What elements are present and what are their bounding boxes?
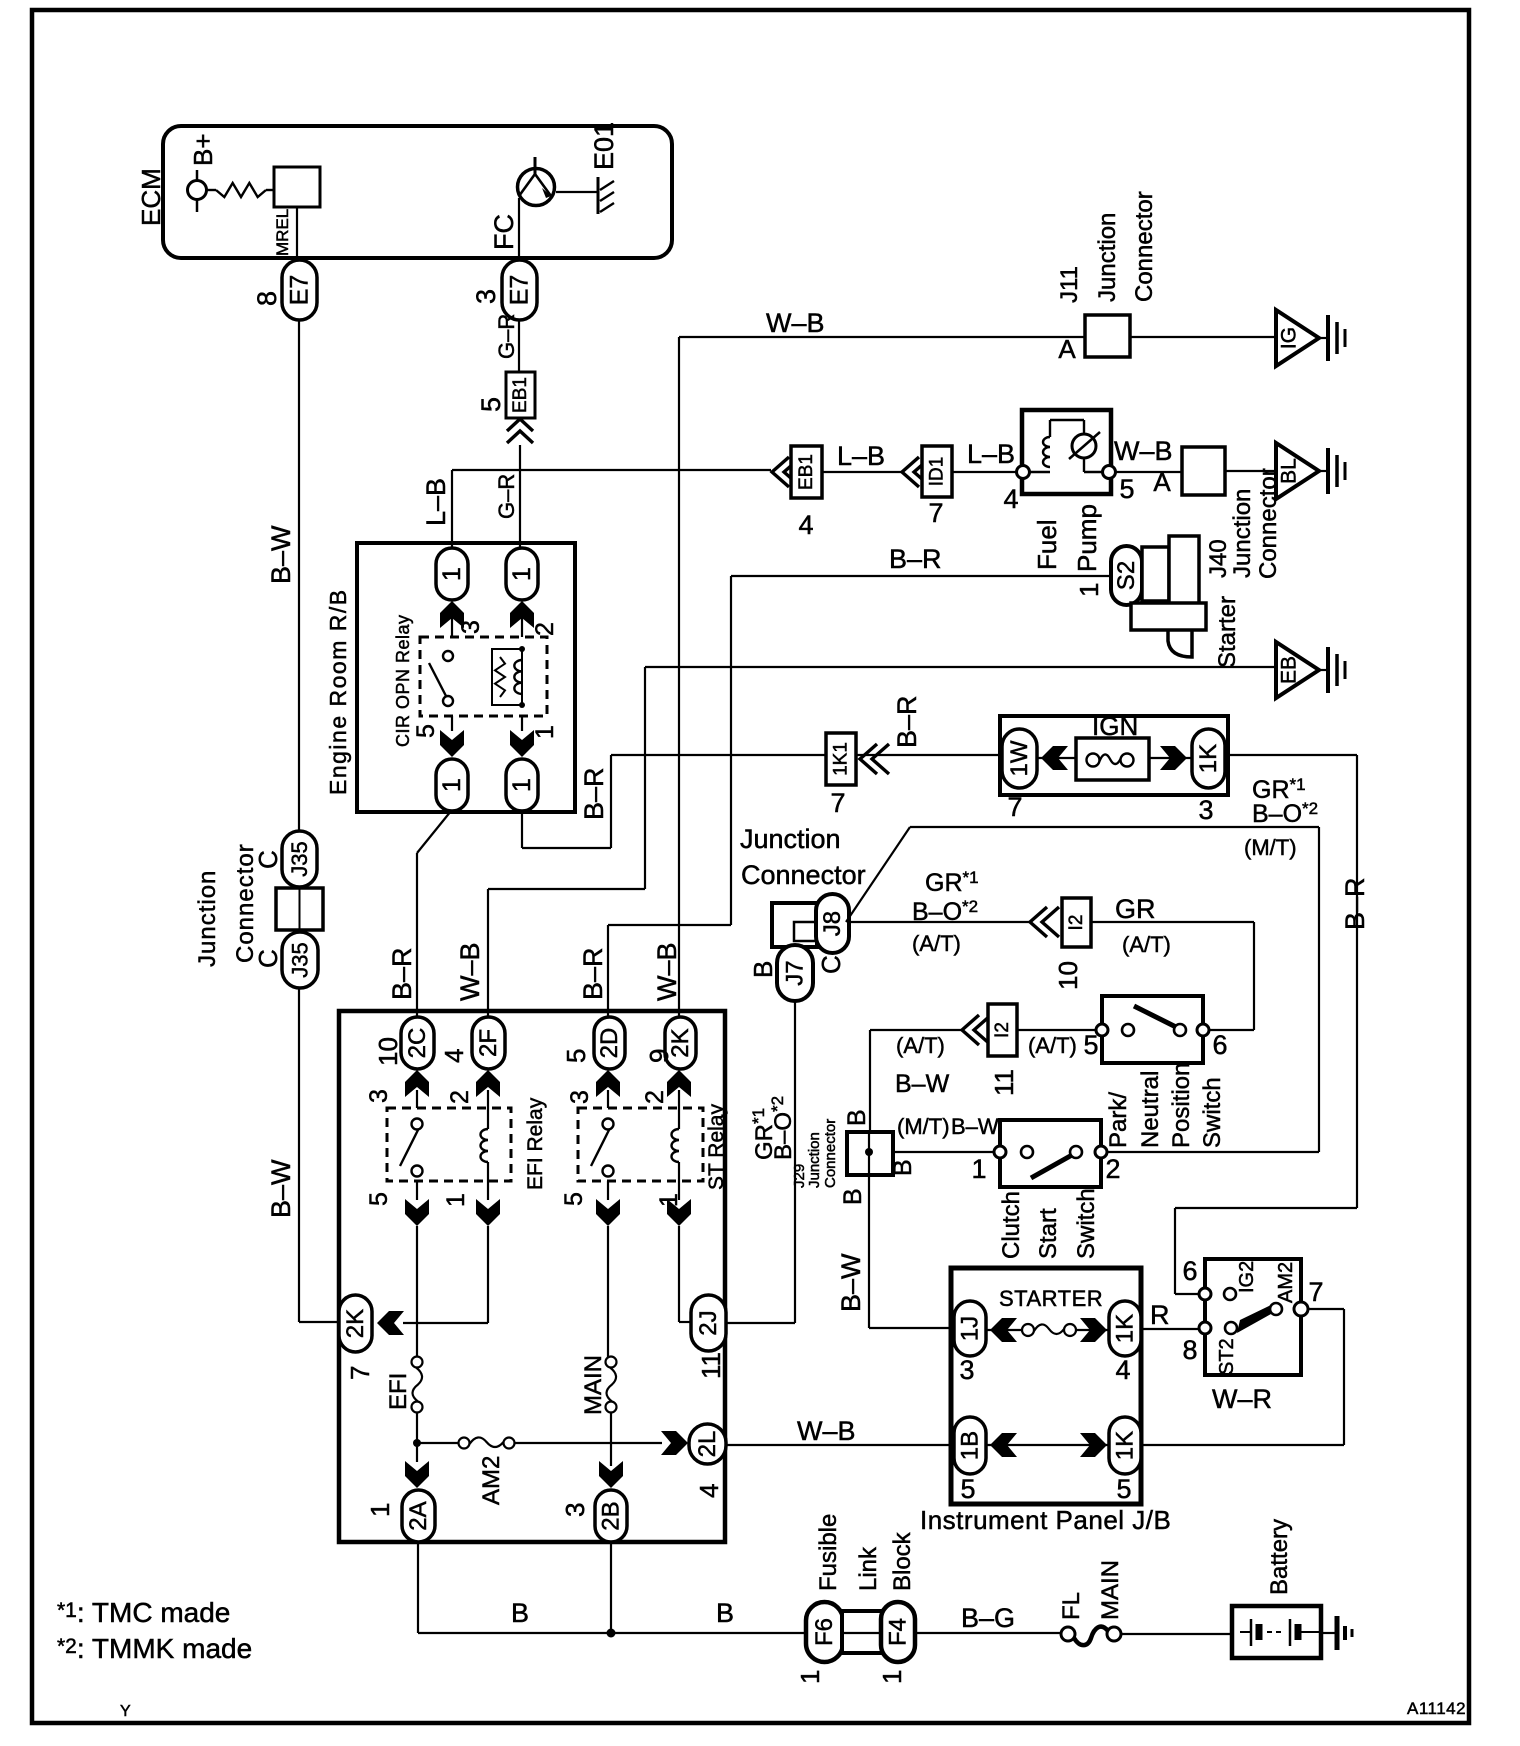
svg-text:Switch: Switch — [1199, 1077, 1226, 1148]
svg-text:11: 11 — [696, 1352, 726, 1379]
battery ground — [1335, 1616, 1340, 1650]
svg-text:IG: IG — [1278, 327, 1301, 349]
svg-text:1K: 1K — [1195, 744, 1222, 773]
CIR OPN Relay dashed box — [420, 637, 547, 716]
ignition switch box — [1205, 1259, 1301, 1375]
svg-text:3: 3 — [566, 1090, 594, 1104]
svg-text:EFI: EFI — [385, 1373, 412, 1410]
wire W-B 2F to EB ground — [487, 889, 489, 1018]
svg-text:Battery: Battery — [1266, 1519, 1293, 1595]
ground E01 — [556, 191, 597, 193]
battery box — [1232, 1606, 1321, 1658]
svg-text:7: 7 — [830, 788, 845, 818]
svg-text:1: 1 — [365, 1503, 395, 1517]
svg-text:AM2: AM2 — [1275, 1262, 1297, 1303]
svg-text:1: 1 — [508, 567, 536, 581]
connector 2L — [689, 1424, 726, 1464]
svg-text:2J: 2J — [695, 1310, 722, 1335]
svg-text:GR: GR — [1115, 894, 1156, 924]
connector E7 pin 3 — [502, 260, 537, 320]
CIR OPN relay bottom oval right — [506, 759, 538, 811]
wire to junction — [416, 1412, 418, 1443]
svg-text:1: 1 — [531, 725, 559, 739]
svg-text:(M/T): (M/T) — [1244, 835, 1297, 860]
svg-text:Position: Position — [1168, 1063, 1195, 1148]
svg-text:Neutral: Neutral — [1137, 1071, 1164, 1148]
wire ST relay 5 down MAIN — [607, 1226, 609, 1357]
svg-text:W–R: W–R — [1212, 1384, 1272, 1414]
connector 1B — [954, 1417, 986, 1474]
svg-text:9: 9 — [644, 1049, 674, 1063]
wire W-B J11 to IG — [1130, 336, 1276, 338]
junction dot B wire — [607, 1629, 616, 1638]
svg-text:J7: J7 — [782, 960, 809, 985]
svg-text:2C: 2C — [404, 1028, 431, 1059]
junction connector J35 lower — [282, 932, 318, 988]
chevrons into I2 lower — [962, 1015, 979, 1045]
fusible link block body — [842, 1611, 882, 1653]
wire G-R to relay block — [519, 445, 521, 548]
arrow into 2B — [599, 1461, 623, 1488]
wire AM2 fuse branch — [417, 1442, 459, 1444]
svg-text:(A/T): (A/T) — [1028, 1033, 1077, 1058]
fuel pump pin 5 — [1103, 466, 1116, 479]
svg-text:10: 10 — [1053, 961, 1083, 990]
svg-text:1K: 1K — [1112, 1314, 1139, 1343]
wire B-G — [915, 1632, 1061, 1634]
svg-text:A: A — [1153, 467, 1171, 497]
svg-text:B–W: B–W — [895, 1070, 950, 1098]
park switch pins — [1096, 1024, 1108, 1036]
wire ST relay 1 to 2J — [678, 1226, 680, 1322]
svg-text:B: B — [511, 1598, 529, 1628]
svg-text:1K1: 1K1 — [831, 742, 852, 776]
svg-text:1: 1 — [1074, 583, 1104, 597]
clutch switch pins — [994, 1146, 1006, 1158]
transistor FC in ECM — [518, 169, 555, 206]
svg-text:Fuel: Fuel — [1032, 519, 1062, 570]
connector 2F — [472, 1017, 505, 1069]
wire FC to E7 — [518, 198, 520, 262]
svg-text:7: 7 — [1308, 1277, 1323, 1307]
svg-text:4: 4 — [439, 1049, 469, 1063]
svg-text:MAIN: MAIN — [1097, 1560, 1124, 1620]
svg-text:1B: 1B — [957, 1431, 984, 1460]
CIR OPN relay coil — [492, 649, 522, 705]
chevrons into I2 upper — [1030, 907, 1047, 937]
ST relay coil — [678, 1108, 680, 1129]
svg-text:E7: E7 — [506, 275, 534, 306]
connector 2J — [691, 1295, 726, 1351]
wire L-B to fuel pump — [952, 471, 1018, 473]
wire W-B from 2L — [726, 1444, 951, 1446]
svg-text:C: C — [816, 955, 846, 974]
svg-text:B–R: B–R — [578, 947, 608, 1000]
svg-text:Junction: Junction — [806, 1132, 823, 1188]
ST relay switch — [603, 1119, 614, 1130]
wire J29 to clutch switch — [893, 1151, 1000, 1153]
svg-text:1: 1 — [438, 778, 466, 792]
arrows into top pins — [405, 1070, 429, 1097]
wire B from 2A — [417, 1542, 419, 1633]
svg-text:Pump: Pump — [1072, 504, 1102, 572]
svg-text:B–W: B–W — [951, 1114, 999, 1139]
junction connector J29 — [847, 1132, 893, 1175]
chevrons into ID1 — [902, 457, 919, 487]
svg-text:Junction: Junction — [194, 870, 221, 967]
svg-text:Connector: Connector — [232, 843, 259, 963]
chevrons into EB1 — [772, 457, 789, 487]
wire B-R diagonal to 2C — [417, 811, 451, 853]
svg-text:5: 5 — [476, 397, 506, 412]
wire GR MT diagonal — [846, 827, 910, 922]
svg-text:J35: J35 — [288, 942, 313, 977]
svg-text:(A/T): (A/T) — [896, 1033, 945, 1058]
fuel pump internals — [1030, 471, 1050, 473]
wire GR AT from J8 — [849, 921, 1030, 923]
wire battery to ground — [1321, 1632, 1335, 1634]
wire to BL ground — [1225, 470, 1276, 472]
arrow to 1K — [1149, 757, 1192, 759]
wire B-W J29 to 1J — [868, 1175, 870, 1328]
junction connector J40 pin A — [1182, 447, 1225, 495]
svg-text:1: 1 — [795, 1670, 825, 1684]
starter body — [1142, 547, 1169, 601]
svg-text:B: B — [889, 1159, 917, 1176]
connector S2 — [1111, 546, 1142, 605]
svg-text:2K: 2K — [342, 1309, 369, 1338]
wire 2J to J7 — [726, 1322, 795, 1324]
junction connector J8 — [816, 894, 849, 953]
MAIN fuse — [606, 1357, 617, 1368]
svg-text:J40: J40 — [1205, 539, 1232, 578]
svg-text:ST2: ST2 — [1216, 1338, 1238, 1375]
svg-text:Junction: Junction — [1094, 213, 1121, 302]
svg-text:(A/T): (A/T) — [1122, 932, 1171, 957]
svg-text:Connector: Connector — [1131, 191, 1158, 302]
svg-text:Connector: Connector — [741, 860, 866, 890]
starter fuse — [986, 1329, 1022, 1331]
svg-text:W–B: W–B — [455, 942, 485, 1001]
wire GR MT to clutch pin2 — [910, 826, 1319, 828]
svg-text:1J: 1J — [957, 1316, 984, 1341]
svg-text:3: 3 — [365, 1089, 393, 1103]
MREL driver box — [274, 167, 320, 207]
EFI relay switch — [412, 1119, 423, 1130]
wire to IGN fuse box — [856, 754, 1002, 756]
wire GR AT to park neutral — [1091, 921, 1254, 923]
svg-text:EB: EB — [1278, 656, 1301, 684]
svg-text:L–B: L–B — [837, 441, 885, 471]
svg-text:8: 8 — [1182, 1335, 1197, 1365]
arrow out pin1 — [510, 730, 534, 757]
W-B arrows in JB — [986, 1444, 1109, 1446]
svg-text:Link: Link — [855, 1546, 882, 1591]
connector EB1 horizontal — [791, 446, 822, 498]
wire to park neutral pin5 — [1017, 1029, 1102, 1031]
svg-text:4: 4 — [1003, 484, 1018, 514]
svg-text:2A: 2A — [405, 1501, 432, 1530]
connector F6 — [806, 1602, 843, 1662]
svg-text:5: 5 — [1116, 1474, 1131, 1504]
svg-text:W–B: W–B — [766, 308, 825, 338]
connector E7 pin 8 — [282, 260, 317, 320]
svg-text:G–R: G–R — [494, 314, 519, 359]
svg-text:B–R: B–R — [387, 947, 417, 1000]
svg-text:6: 6 — [1212, 1030, 1227, 1060]
arrow into 2K — [377, 1311, 404, 1335]
svg-text:(A/T): (A/T) — [912, 931, 961, 956]
svg-text:1: 1 — [877, 1670, 907, 1684]
svg-text:6: 6 — [1182, 1256, 1197, 1286]
wire B-R to starter — [731, 575, 1111, 577]
svg-text:2B: 2B — [598, 1501, 625, 1530]
svg-text:Y: Y — [120, 1703, 131, 1720]
svg-text:FL: FL — [1058, 1592, 1085, 1620]
svg-text:AM2: AM2 — [478, 1456, 505, 1505]
svg-text:STARTER: STARTER — [999, 1286, 1103, 1311]
arrow into pin2 — [510, 601, 534, 628]
connector 2A — [402, 1490, 435, 1542]
wire B-W to relay box 2K — [298, 988, 300, 1322]
svg-text:3: 3 — [560, 1503, 590, 1517]
wire EFI to 2A — [416, 1443, 418, 1462]
svg-text:EB1: EB1 — [796, 454, 817, 490]
svg-text:Switch: Switch — [1073, 1188, 1100, 1259]
svg-text:Engine Room R/B: Engine Room R/B — [325, 588, 351, 795]
EFI relay coil — [487, 1108, 489, 1129]
EFI ST relay box — [339, 1011, 725, 1542]
wire B from 2B — [610, 1542, 612, 1633]
svg-text:MREL: MREL — [273, 209, 292, 256]
wire B-W from E7 pin8 — [298, 320, 300, 831]
svg-text:5: 5 — [560, 1192, 588, 1206]
svg-text:I2: I2 — [992, 1022, 1013, 1038]
svg-text:MAIN: MAIN — [580, 1355, 607, 1415]
svg-text:I2: I2 — [1066, 915, 1087, 931]
wire B-W AT — [869, 1030, 871, 1132]
svg-text:*1: TMC made: *1: TMC made — [57, 1597, 230, 1628]
connector 1K starter — [1109, 1301, 1141, 1356]
svg-text:EFI Relay: EFI Relay — [524, 1097, 547, 1190]
wire to battery — [1121, 1633, 1232, 1635]
svg-text:2F: 2F — [475, 1029, 502, 1057]
connector 2C — [401, 1017, 434, 1069]
wire G-R from E7 — [518, 320, 520, 372]
svg-text:3: 3 — [457, 620, 485, 634]
svg-text:1W: 1W — [1006, 740, 1033, 776]
connector EB1 vertical — [506, 372, 535, 418]
Engine Room R/B box — [357, 543, 575, 812]
ignition pins — [1199, 1288, 1211, 1300]
ground IG — [1276, 310, 1319, 366]
EFI fuse — [412, 1357, 423, 1368]
svg-text:1: 1 — [508, 778, 536, 792]
instrument panel JB box — [951, 1268, 1141, 1504]
svg-text:5: 5 — [960, 1474, 975, 1504]
chevrons at 1K1 — [860, 744, 877, 774]
svg-text:L–B: L–B — [967, 439, 1015, 469]
svg-text:B: B — [716, 1598, 734, 1628]
CIR OPN relay coil pin oval — [506, 548, 538, 600]
svg-text:2D: 2D — [596, 1028, 623, 1059]
J35 block — [276, 888, 323, 930]
svg-text:7: 7 — [928, 498, 943, 528]
svg-text:EB1: EB1 — [510, 377, 531, 413]
svg-text:5: 5 — [561, 1049, 591, 1063]
connector F4 — [881, 1602, 915, 1662]
svg-text:10: 10 — [373, 1037, 403, 1066]
clutch start switch box — [1000, 1120, 1101, 1187]
svg-text:4: 4 — [694, 1484, 724, 1498]
svg-text:G–R: G–R — [494, 474, 519, 519]
fuel pump pin 4 — [1017, 466, 1030, 479]
junction connector J7 — [777, 945, 813, 1001]
pin 5 stub — [451, 716, 453, 731]
svg-text:J35: J35 — [287, 841, 312, 876]
svg-text:5: 5 — [412, 724, 440, 738]
wire L-B horizontal — [452, 469, 771, 471]
svg-text:1: 1 — [442, 1193, 470, 1207]
svg-text:F6: F6 — [811, 1618, 838, 1646]
wire W-B to J40 — [1116, 471, 1182, 473]
svg-text:L–B: L–B — [421, 478, 451, 526]
wire R to ignition pin8 — [1141, 1328, 1200, 1330]
svg-text:Instrument Panel J/B: Instrument Panel J/B — [920, 1505, 1171, 1535]
wire B-R from relay to 1K1 row — [521, 811, 523, 848]
fuel pump box — [1022, 410, 1111, 494]
svg-text:4: 4 — [1115, 1355, 1130, 1385]
IGN fuse box — [1000, 716, 1228, 795]
svg-text:W–B: W–B — [652, 942, 682, 1001]
svg-text:ECM: ECM — [136, 168, 166, 226]
svg-text:7: 7 — [345, 1366, 375, 1380]
svg-text:3: 3 — [959, 1355, 974, 1385]
connector 2D — [594, 1017, 625, 1069]
svg-text:Block: Block — [889, 1531, 916, 1591]
svg-text:B–W: B–W — [266, 1159, 296, 1218]
connector 2B — [595, 1490, 627, 1542]
svg-text:Starter: Starter — [1214, 596, 1241, 668]
wire AM2 to W-B — [1308, 1308, 1344, 1310]
svg-text:5: 5 — [1119, 474, 1134, 504]
ECM box — [163, 126, 672, 258]
svg-text:Connector: Connector — [822, 1119, 839, 1188]
arrow to 1W — [1037, 757, 1076, 759]
connector 2K side — [339, 1295, 372, 1352]
svg-text:Clutch: Clutch — [998, 1191, 1025, 1259]
svg-text:Junction: Junction — [740, 824, 841, 854]
connector 2K9 — [665, 1017, 696, 1069]
FL MAIN fuse — [1061, 1627, 1075, 1641]
wire B-R from 1K to ignition switch — [1225, 754, 1357, 756]
wire L-B to ID1 — [822, 471, 902, 473]
svg-text:2: 2 — [641, 1090, 669, 1104]
svg-text:(M/T): (M/T) — [897, 1114, 950, 1139]
svg-text:1: 1 — [438, 567, 466, 581]
AM2 fuse — [459, 1438, 470, 1449]
svg-text:R: R — [1150, 1300, 1170, 1330]
wire B-R to 2D — [730, 576, 732, 925]
svg-text:B–G: B–G — [961, 1603, 1015, 1633]
svg-text:B–W: B–W — [836, 1253, 866, 1312]
CIR OPN relay bottom oval left — [436, 759, 468, 811]
wire EFI relay 1 to 2K — [487, 1226, 489, 1323]
B+ terminal — [196, 170, 199, 212]
connector ID1 — [922, 446, 952, 497]
svg-text:CIR OPN Relay: CIR OPN Relay — [393, 614, 413, 747]
connector I2 upper — [1062, 898, 1091, 947]
svg-text:J11: J11 — [1056, 266, 1083, 303]
svg-text:IG2: IG2 — [1236, 1261, 1258, 1293]
arrow into 2L — [661, 1431, 688, 1455]
junction connector J11 pin A — [1085, 315, 1130, 357]
wire W-B 1K to AM2 riser — [1141, 1444, 1344, 1446]
resistor in ECM — [206, 189, 216, 191]
svg-text:8: 8 — [252, 291, 282, 306]
svg-text:*2: TMMK made: *2: TMMK made — [57, 1633, 252, 1664]
svg-text:2: 2 — [446, 1090, 474, 1104]
svg-text:IGN: IGN — [1092, 711, 1138, 741]
connector 1K lower — [1109, 1417, 1141, 1474]
pin 1 stub — [521, 716, 523, 731]
arrow out pin5 — [440, 730, 464, 757]
svg-text:W–B: W–B — [1114, 436, 1173, 466]
arrow into pin3 — [440, 601, 464, 628]
svg-text:2: 2 — [1105, 1154, 1120, 1184]
svg-text:7: 7 — [1007, 792, 1022, 822]
connector 1K ignition — [1192, 729, 1225, 788]
svg-text:E01: E01 — [589, 122, 619, 170]
svg-text:J8: J8 — [819, 911, 846, 936]
svg-text:B: B — [843, 1109, 871, 1126]
svg-text:Junction: Junction — [1229, 489, 1256, 578]
svg-text:B–R: B–R — [579, 767, 609, 820]
junction connector J35 upper — [282, 831, 317, 887]
battery cells — [1240, 1631, 1250, 1633]
arrows out bottom pins — [416, 1181, 418, 1200]
CIR OPN relay pin3 oval — [436, 548, 468, 600]
svg-text:2L: 2L — [694, 1431, 721, 1458]
svg-text:W–B: W–B — [797, 1416, 856, 1446]
ST relay dashed box — [578, 1108, 703, 1181]
svg-text:A11142: A11142 — [1407, 1699, 1466, 1718]
svg-text:Fusible: Fusible — [815, 1514, 842, 1591]
svg-text:S2: S2 — [1113, 561, 1140, 590]
svg-text:1K: 1K — [1112, 1431, 1139, 1460]
IGN fuse — [1076, 738, 1149, 780]
svg-text:F4: F4 — [885, 1618, 912, 1646]
EFI relay dashed box — [387, 1108, 511, 1181]
svg-text:3: 3 — [1198, 795, 1213, 825]
wire AM2 to 2L — [514, 1442, 662, 1444]
svg-text:B: B — [748, 961, 778, 978]
svg-text:1: 1 — [971, 1154, 986, 1184]
ground BL — [1276, 443, 1319, 499]
svg-text:3: 3 — [471, 289, 501, 304]
svg-text:A: A — [1058, 334, 1076, 364]
svg-text:B: B — [839, 1188, 867, 1205]
connector 1J — [954, 1301, 986, 1356]
chevrons below EB1 — [507, 419, 533, 431]
svg-text:B–R: B–R — [1340, 877, 1370, 930]
connector 1K1 — [826, 733, 856, 785]
svg-text:BL: BL — [1278, 458, 1301, 484]
J8 block — [772, 903, 817, 947]
park neutral position switch box — [1102, 996, 1203, 1063]
svg-text:B–W: B–W — [266, 525, 296, 584]
wire EFI relay 5 down — [416, 1226, 418, 1357]
